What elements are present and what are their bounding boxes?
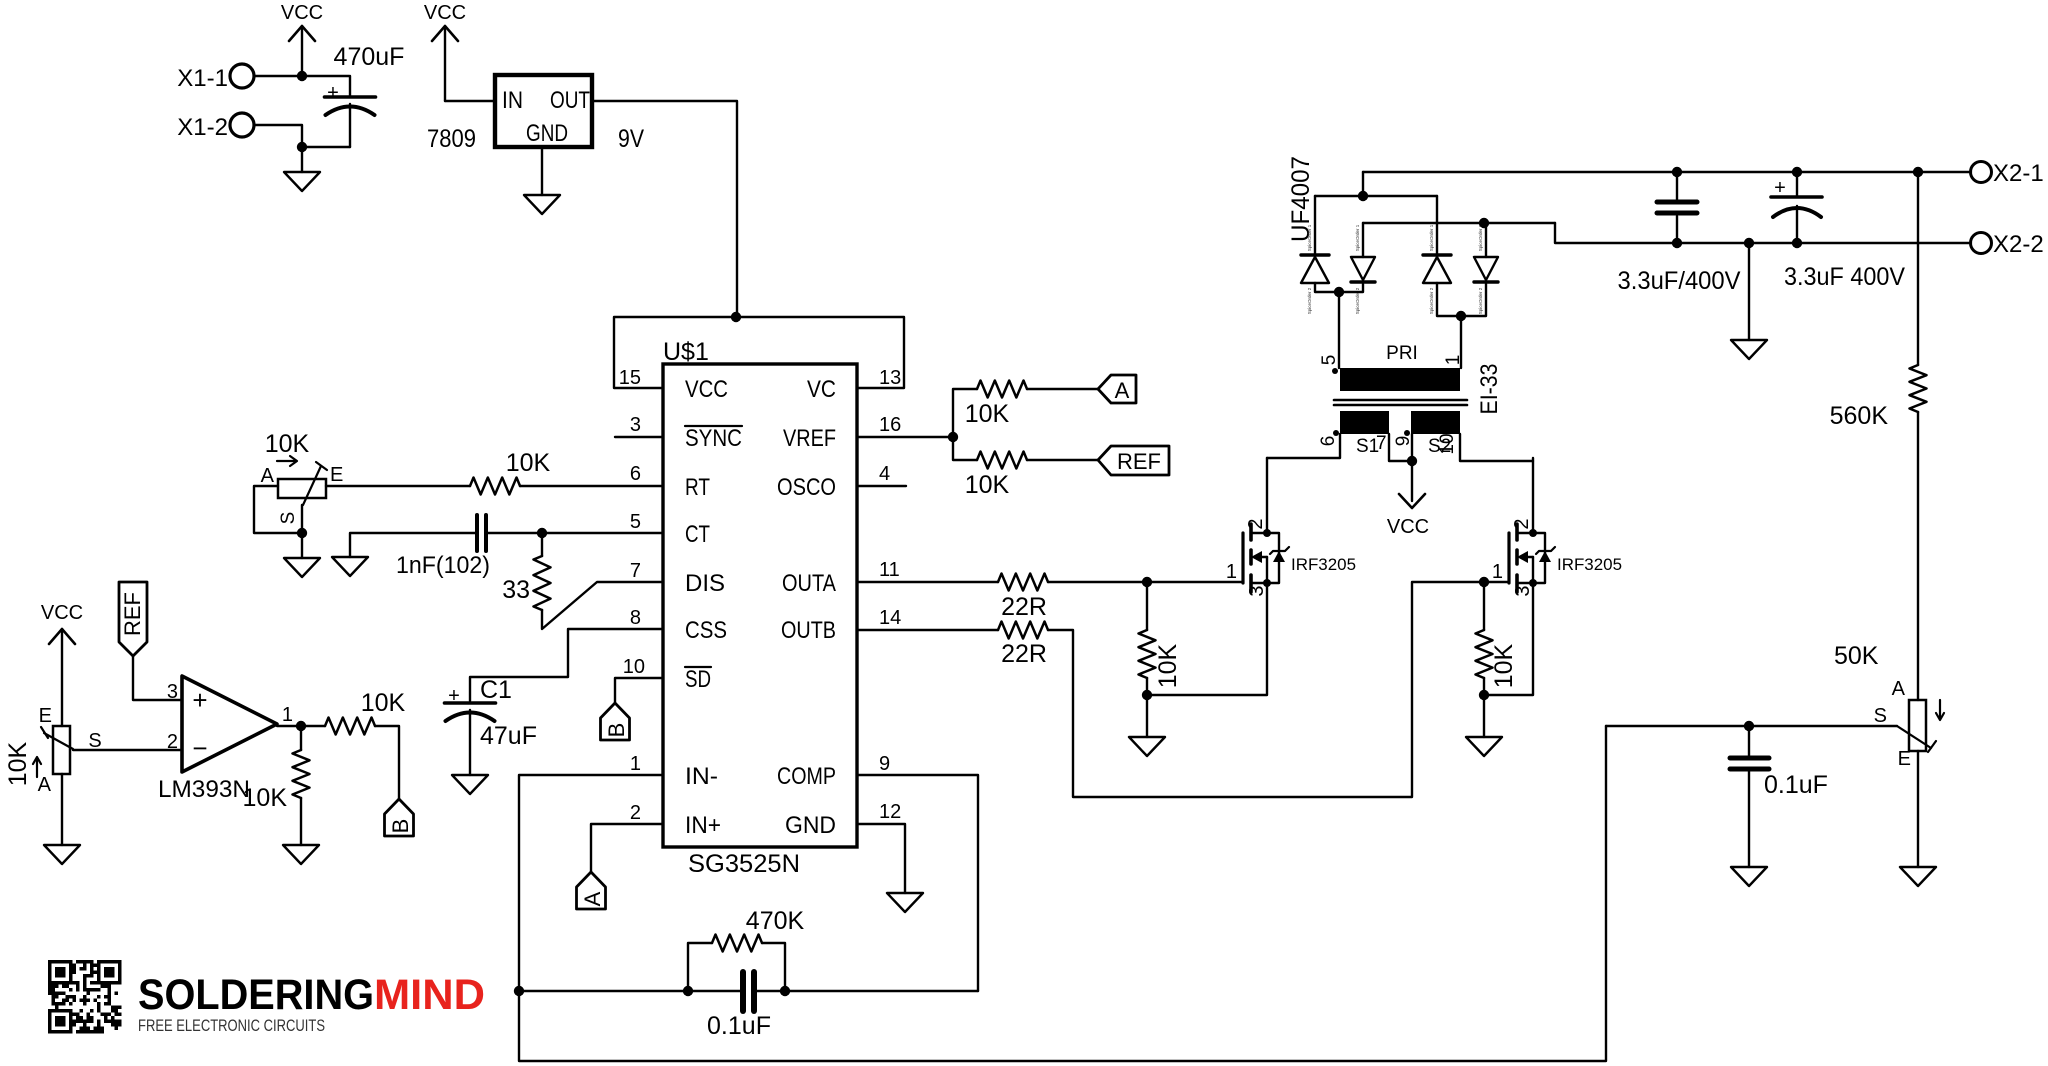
wire xyxy=(519,990,741,992)
capacitor 470uF xyxy=(325,43,405,147)
wire xyxy=(1436,196,1438,255)
wire xyxy=(542,532,663,534)
junction xyxy=(1456,311,1466,321)
svg-text:B: B xyxy=(604,723,629,738)
pin name IN+ xyxy=(685,812,721,839)
wire xyxy=(1437,283,1486,316)
resistor 10K xyxy=(243,726,310,812)
transformer core xyxy=(1334,400,1467,405)
junction xyxy=(1792,238,1802,248)
pin name IN- xyxy=(685,763,718,790)
op-amp LM393N xyxy=(158,676,293,803)
ground xyxy=(284,172,320,191)
pin 16 xyxy=(879,414,901,436)
capacitor 1nF(102) xyxy=(396,515,490,579)
svg-text:OUTA: OUTA xyxy=(782,570,836,597)
svg-text:10: 10 xyxy=(623,656,645,678)
wire xyxy=(1027,388,1098,390)
flag REF xyxy=(1098,446,1169,475)
wire xyxy=(1411,434,1413,461)
wire xyxy=(254,125,302,147)
svg-text:A: A xyxy=(1115,378,1130,403)
svg-text:SOLDERING: SOLDERING xyxy=(138,971,374,1019)
svg-text:0.1uF: 0.1uF xyxy=(1764,771,1828,799)
svg-text:REF: REF xyxy=(1117,449,1161,474)
wire xyxy=(1315,195,1437,197)
resistor 33 xyxy=(502,533,550,610)
wire xyxy=(1147,583,1267,695)
wire xyxy=(591,824,663,872)
pin 5 xyxy=(630,511,641,533)
wire xyxy=(542,582,663,629)
wire xyxy=(1314,196,1316,255)
wire xyxy=(541,147,543,195)
svg-text:OUTB: OUTB xyxy=(781,617,836,644)
junction xyxy=(948,432,958,442)
svg-text:2: 2 xyxy=(1245,518,1267,529)
ground xyxy=(1129,737,1165,756)
wire xyxy=(1048,581,1243,583)
terminal X2-1 xyxy=(1971,160,2044,187)
svg-text:1nF(102): 1nF(102) xyxy=(396,552,490,579)
pin name DIS xyxy=(685,570,725,597)
ground xyxy=(1900,867,1936,886)
wire xyxy=(1048,582,1509,797)
svg-text:6: 6 xyxy=(1318,436,1339,447)
svg-text:10K: 10K xyxy=(361,689,406,717)
capacitor 3.3uF 400V xyxy=(1771,172,1905,291)
potentiometer 10K xyxy=(4,705,102,796)
power VCC xyxy=(424,2,466,101)
wire xyxy=(301,147,303,172)
svg-text:X2-2: X2-2 xyxy=(1993,231,2044,258)
svg-text:OUT: OUT xyxy=(550,87,590,114)
resistor 560K xyxy=(1830,365,1927,430)
flag B xyxy=(601,703,630,740)
svg-text:CT: CT xyxy=(685,521,710,548)
junction xyxy=(537,528,547,538)
wire xyxy=(350,533,475,557)
power VCC xyxy=(41,602,83,726)
svg-text:10: 10 xyxy=(1437,433,1458,454)
wire xyxy=(470,629,663,701)
ground xyxy=(44,845,80,864)
junction xyxy=(1672,238,1682,248)
svg-text:EI-33: EI-33 xyxy=(1476,364,1503,415)
svg-text:SYNC: SYNC xyxy=(685,425,742,452)
svg-text:47uF: 47uF xyxy=(480,722,537,750)
resistor 470K xyxy=(688,907,805,991)
label EI-33 xyxy=(1476,364,1503,415)
svg-text:560K: 560K xyxy=(1830,402,1889,430)
junction xyxy=(1142,577,1152,587)
flag A xyxy=(1098,375,1136,403)
svg-text:13: 13 xyxy=(879,367,901,389)
svg-text:B: B xyxy=(388,819,413,834)
svg-text:REF: REF xyxy=(120,592,145,636)
svg-text:VCC: VCC xyxy=(685,376,728,403)
svg-text:3: 3 xyxy=(630,414,641,436)
pin name VCC xyxy=(685,376,728,403)
svg-text:SG3525N: SG3525N xyxy=(688,850,800,878)
svg-text:IN: IN xyxy=(502,87,523,114)
svg-text:SpiceOrder 1: SpiceOrder 1 xyxy=(1429,224,1434,251)
pin 12 xyxy=(879,801,901,823)
ground xyxy=(452,775,488,794)
pin name SYNC xyxy=(685,425,742,452)
svg-text:6: 6 xyxy=(630,463,641,485)
resistor 10K xyxy=(965,381,1027,429)
svg-text:1: 1 xyxy=(1492,561,1503,583)
ground xyxy=(887,893,923,912)
svg-text:A: A xyxy=(1892,678,1906,700)
svg-text:10K: 10K xyxy=(243,784,288,812)
svg-text:5: 5 xyxy=(630,511,641,533)
resistor 10K xyxy=(965,452,1027,500)
svg-text:7: 7 xyxy=(630,560,641,582)
svg-text:10K: 10K xyxy=(965,471,1010,499)
wire xyxy=(953,437,977,460)
pin 9 xyxy=(879,753,890,775)
resistor 10K xyxy=(1476,582,1519,688)
ground xyxy=(283,845,319,864)
potentiometer 50K xyxy=(1834,642,1944,770)
wire xyxy=(857,775,978,991)
wire xyxy=(1460,434,1533,461)
net X2-1 rail xyxy=(1363,171,1971,173)
power VCC xyxy=(281,2,323,76)
junction xyxy=(1479,577,1489,587)
svg-text:A: A xyxy=(261,465,275,487)
junction xyxy=(1744,721,1754,731)
svg-text:3: 3 xyxy=(1512,585,1534,596)
svg-text:33: 33 xyxy=(502,576,530,604)
pin 6 xyxy=(630,463,641,485)
wire xyxy=(857,485,906,487)
pin name OUTB xyxy=(781,617,836,644)
svg-text:22R: 22R xyxy=(1001,640,1047,668)
wire xyxy=(615,436,663,438)
svg-text:8: 8 xyxy=(630,607,641,629)
svg-text:0.1uF: 0.1uF xyxy=(707,1012,771,1040)
svg-text:GND: GND xyxy=(526,120,568,147)
wire xyxy=(301,533,303,558)
diode D3 UF4007 xyxy=(1423,224,1451,314)
pin name COMP xyxy=(777,763,836,790)
wire xyxy=(1362,172,1364,196)
svg-text:12: 12 xyxy=(879,801,901,823)
flag REF xyxy=(119,582,147,656)
regulator 7809 xyxy=(427,75,644,153)
wire xyxy=(592,101,737,317)
wire xyxy=(73,749,182,751)
junction xyxy=(1913,167,1923,177)
wire xyxy=(1483,678,1485,695)
svg-text:2: 2 xyxy=(1511,518,1533,529)
transistor Q2 IRF3205 xyxy=(1492,518,1622,596)
pin 7 xyxy=(630,560,641,582)
svg-text:2: 2 xyxy=(167,731,178,753)
wire xyxy=(1917,172,1919,365)
ground xyxy=(332,557,368,576)
wire xyxy=(519,775,663,991)
wire xyxy=(1027,459,1098,461)
svg-text:1: 1 xyxy=(282,704,293,726)
wire xyxy=(1917,751,1919,867)
ground xyxy=(524,195,560,214)
svg-text:IRF3205: IRF3205 xyxy=(1557,555,1622,574)
svg-text:S: S xyxy=(88,730,101,752)
wire xyxy=(1363,222,1555,224)
junction xyxy=(1407,456,1417,466)
junction xyxy=(297,71,307,81)
pin 13 xyxy=(879,367,901,389)
wire xyxy=(857,436,953,438)
svg-text:50K: 50K xyxy=(1834,642,1879,670)
pin name VREF xyxy=(783,425,836,452)
svg-text:A: A xyxy=(580,891,605,906)
svg-text:E: E xyxy=(330,464,343,486)
capacitor C1 47uF xyxy=(445,676,537,775)
svg-text:DIS: DIS xyxy=(685,570,725,597)
svg-text:11: 11 xyxy=(879,559,900,581)
wire xyxy=(1483,695,1485,737)
svg-text:OSCO: OSCO xyxy=(777,474,836,501)
svg-text:14: 14 xyxy=(879,607,901,629)
wire xyxy=(1917,412,1919,700)
wire xyxy=(1146,695,1148,737)
resistor 10K xyxy=(470,449,551,495)
pin name OSCO xyxy=(777,474,836,501)
wire xyxy=(1484,583,1533,695)
wire xyxy=(1338,292,1340,368)
terminal X1-2 xyxy=(177,113,254,141)
svg-text:7: 7 xyxy=(1376,433,1387,454)
svg-text:10K: 10K xyxy=(265,430,310,458)
wire xyxy=(1748,243,1750,340)
svg-text:VREF: VREF xyxy=(783,425,836,452)
svg-text:IN+: IN+ xyxy=(685,812,721,839)
wire xyxy=(857,581,998,583)
op-amp U$1 SG3525N box xyxy=(663,338,857,878)
ground xyxy=(1731,340,1767,359)
svg-text:3: 3 xyxy=(167,681,178,703)
terminal X2-2 xyxy=(1971,231,2044,258)
junction xyxy=(1479,690,1489,700)
svg-text:4: 4 xyxy=(879,463,890,485)
resistor 10K xyxy=(1139,582,1183,688)
svg-text:10K: 10K xyxy=(1154,643,1182,688)
svg-text:VCC: VCC xyxy=(281,2,323,24)
svg-text:X2-1: X2-1 xyxy=(1993,160,2044,187)
pin name CSS xyxy=(685,617,727,644)
junction xyxy=(1479,218,1489,228)
transistor Q1 IRF3205 xyxy=(1226,518,1356,596)
pin name CT xyxy=(685,521,710,548)
svg-text:E: E xyxy=(39,705,52,727)
capacitor 3.3uF/400V xyxy=(1618,172,1741,295)
svg-text:RT: RT xyxy=(685,474,710,501)
svg-text:U$1: U$1 xyxy=(663,338,709,366)
svg-text:5: 5 xyxy=(1319,355,1340,366)
svg-text:3.3uF 400V: 3.3uF 400V xyxy=(1784,263,1905,291)
junction xyxy=(297,142,307,152)
wire xyxy=(1146,678,1148,695)
svg-text:X1-2: X1-2 xyxy=(177,114,228,141)
capacitor 0.1uF xyxy=(707,972,771,1040)
svg-text:SpiceOrder 1: SpiceOrder 1 xyxy=(1307,224,1312,251)
svg-text:9V: 9V xyxy=(618,125,644,153)
pin 14 xyxy=(879,607,901,629)
wire xyxy=(1555,223,1971,243)
wire xyxy=(615,678,663,703)
svg-text:−: − xyxy=(192,733,207,763)
junction xyxy=(297,528,307,538)
wire xyxy=(520,485,663,487)
wire xyxy=(857,824,905,893)
svg-text:SD: SD xyxy=(685,666,711,693)
svg-text:MIND: MIND xyxy=(374,971,485,1019)
ground xyxy=(284,558,320,577)
wire xyxy=(254,486,302,533)
terminal X1-1 xyxy=(177,64,254,92)
svg-text:IN-: IN- xyxy=(685,763,718,790)
svg-text:SpiceOrder 2: SpiceOrder 2 xyxy=(1429,287,1434,314)
wire xyxy=(488,532,542,534)
wire xyxy=(1389,434,1412,461)
junction xyxy=(780,986,790,996)
wire xyxy=(1606,725,1897,727)
wire xyxy=(756,990,978,992)
flag B xyxy=(385,799,414,836)
wire xyxy=(1267,434,1340,458)
svg-text:GND: GND xyxy=(785,812,836,839)
svg-text:FREE ELECTRONIC CIRCUITS: FREE ELECTRONIC CIRCUITS xyxy=(138,1017,325,1035)
wire xyxy=(1485,223,1487,257)
svg-text:9: 9 xyxy=(879,753,890,775)
svg-text:1: 1 xyxy=(1226,561,1237,583)
junction xyxy=(1672,167,1682,177)
svg-text:S: S xyxy=(1874,705,1887,727)
pin 2 xyxy=(630,802,641,824)
svg-text:VCC: VCC xyxy=(41,602,83,624)
resistor 22R xyxy=(998,622,1048,669)
wire xyxy=(302,146,350,148)
svg-text:VC: VC xyxy=(807,376,836,403)
svg-text:10K: 10K xyxy=(965,400,1010,428)
pin 1 xyxy=(630,753,641,775)
svg-text:SpiceOrder 1: SpiceOrder 1 xyxy=(1355,224,1360,251)
junction xyxy=(514,986,524,996)
junction xyxy=(1334,287,1344,297)
pin name VC xyxy=(807,376,836,403)
junction xyxy=(296,721,306,731)
pin name OUTA xyxy=(782,570,836,597)
resistor 10K xyxy=(325,689,406,735)
svg-text:IRF3205: IRF3205 xyxy=(1291,555,1356,574)
svg-text:+: + xyxy=(327,82,339,104)
svg-text:LM393N: LM393N xyxy=(158,776,250,803)
svg-text:SpiceOrder 2: SpiceOrder 2 xyxy=(1478,287,1483,314)
logo QR code xyxy=(48,960,122,1034)
junction xyxy=(683,986,693,996)
power VCC xyxy=(1387,461,1429,538)
svg-text:X1-1: X1-1 xyxy=(177,65,228,92)
diode D4 UF4007 xyxy=(1474,224,1498,314)
svg-text:10K: 10K xyxy=(506,449,551,477)
wire xyxy=(133,656,182,700)
diode D2 UF4007 xyxy=(1351,224,1375,314)
pin name RT xyxy=(685,474,710,501)
svg-text:SpiceOrder 1: SpiceOrder 1 xyxy=(1478,224,1483,251)
pin 10 xyxy=(623,656,645,678)
svg-text:A: A xyxy=(38,774,52,796)
svg-text:E: E xyxy=(1898,748,1911,770)
wire xyxy=(277,725,325,727)
wire xyxy=(300,798,302,845)
capacitor 0.1uF xyxy=(1730,726,1828,867)
wire xyxy=(1532,458,1534,533)
wire xyxy=(857,629,998,631)
svg-text:CSS: CSS xyxy=(685,617,727,644)
flag A xyxy=(577,872,606,909)
wire xyxy=(1266,458,1268,533)
transformer EI-33 secondary S1 xyxy=(1318,411,1389,457)
svg-text:VCC: VCC xyxy=(424,2,466,24)
svg-text:1: 1 xyxy=(630,753,641,775)
diode D1 UF4007 xyxy=(1301,224,1329,314)
ground xyxy=(1731,867,1767,886)
wire xyxy=(953,389,977,437)
junction xyxy=(731,312,741,322)
svg-text:3: 3 xyxy=(1246,585,1268,596)
svg-text:10K: 10K xyxy=(4,741,32,786)
svg-text:+: + xyxy=(192,685,207,715)
svg-text:7809: 7809 xyxy=(427,125,476,153)
svg-text:10K: 10K xyxy=(1490,643,1518,688)
svg-text:COMP: COMP xyxy=(777,763,836,790)
svg-text:470uF: 470uF xyxy=(334,43,405,71)
svg-text:22R: 22R xyxy=(1001,593,1047,621)
transformer EI-33 primary xyxy=(1319,343,1464,391)
pin 8 xyxy=(630,607,641,629)
logo SOLDERINGMIND xyxy=(138,971,485,1035)
junction xyxy=(1142,690,1152,700)
transformer EI-33 secondary S2 xyxy=(1393,411,1460,457)
svg-text:16: 16 xyxy=(879,414,901,436)
svg-text:3.3uF/400V: 3.3uF/400V xyxy=(1618,267,1741,295)
ground xyxy=(1466,737,1502,756)
pin 15 xyxy=(619,367,641,389)
label UF4007 xyxy=(1287,156,1315,242)
junction xyxy=(1792,167,1802,177)
svg-text:C1: C1 xyxy=(480,676,512,704)
potentiometer 10K xyxy=(261,430,344,533)
svg-text:SpiceOrder 2: SpiceOrder 2 xyxy=(1307,287,1312,314)
wire xyxy=(61,774,63,845)
svg-text:VCC: VCC xyxy=(1387,516,1429,538)
pin 3 xyxy=(630,414,641,436)
pin name GND xyxy=(785,812,836,839)
wire xyxy=(1362,223,1364,257)
pin 4 xyxy=(879,463,890,485)
wire xyxy=(375,726,399,799)
wire xyxy=(445,100,495,102)
svg-text:S: S xyxy=(278,512,299,525)
resistor 22R xyxy=(998,574,1048,622)
junction xyxy=(1358,191,1368,201)
wire xyxy=(254,75,349,77)
